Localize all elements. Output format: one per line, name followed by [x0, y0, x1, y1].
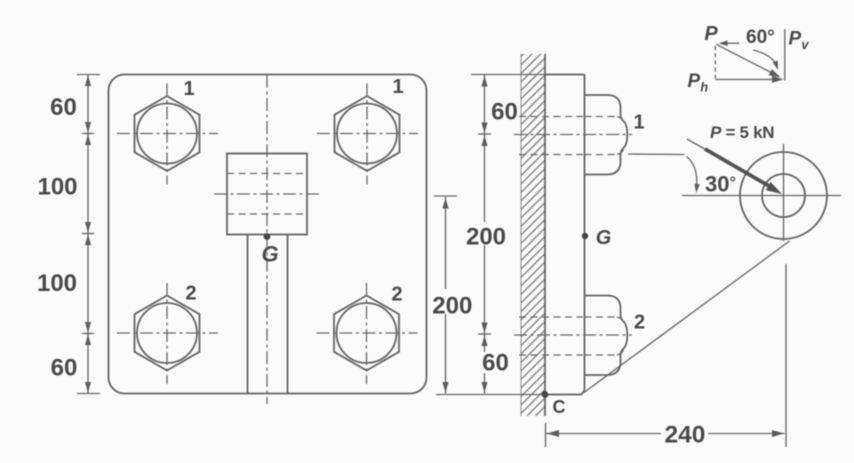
svg-text:1: 1 [392, 76, 403, 98]
svg-text:60: 60 [482, 350, 509, 377]
svg-text:60°: 60° [746, 27, 775, 48]
svg-text:1: 1 [183, 78, 194, 100]
svg-text:60: 60 [50, 94, 77, 121]
svg-text:200: 200 [432, 293, 472, 320]
svg-text:200: 200 [466, 224, 506, 251]
svg-text:240: 240 [665, 422, 706, 449]
svg-text:G: G [261, 242, 278, 267]
svg-text:P: P [704, 23, 718, 45]
svg-text:P = 5 kN: P = 5 kN [710, 123, 774, 142]
svg-text:100: 100 [37, 270, 77, 297]
svg-text:G: G [596, 227, 612, 249]
svg-text:60: 60 [51, 355, 78, 382]
svg-text:2: 2 [391, 284, 402, 306]
svg-text:2: 2 [185, 283, 196, 305]
svg-text:C: C [553, 397, 566, 417]
svg-text:1: 1 [633, 112, 644, 134]
svg-text:2: 2 [634, 312, 645, 334]
svg-text:100: 100 [37, 174, 77, 201]
svg-text:60: 60 [491, 99, 518, 126]
